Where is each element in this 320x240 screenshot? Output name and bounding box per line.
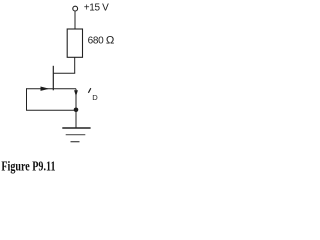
gate arrowhead <box>41 87 50 91</box>
wire node to ground <box>75 110 77 128</box>
supply terminal circle <box>73 6 78 11</box>
wire drain horizontal <box>53 72 75 74</box>
wire source vertical down <box>75 89 77 110</box>
svg-text:+15 V: +15 V <box>84 3 109 14</box>
ground bar 1 <box>62 127 90 129</box>
ground bar 3 <box>71 141 80 143</box>
wire terminal to resistor <box>74 11 76 29</box>
gate feedback bottom wire <box>26 109 76 111</box>
resistor R 680ohm body <box>67 29 82 57</box>
svg-text:Figure P9.11: Figure P9.11 <box>1 158 55 174</box>
wire source horizontal <box>53 88 76 90</box>
junction node dot <box>74 108 79 113</box>
gate feedback left vertical wire <box>26 88 28 110</box>
transistor Q1 gate wire with arrow <box>27 88 54 90</box>
svg-text:D: D <box>92 93 98 102</box>
transistor Q1 channel bar <box>52 66 54 91</box>
svg-text:680 Ω: 680 Ω <box>88 34 114 46</box>
wire resistor to drain <box>74 57 76 73</box>
ground bar 2 <box>66 134 86 136</box>
label I_D italic I stroke <box>88 88 90 93</box>
current arrow I_D <box>74 90 78 96</box>
